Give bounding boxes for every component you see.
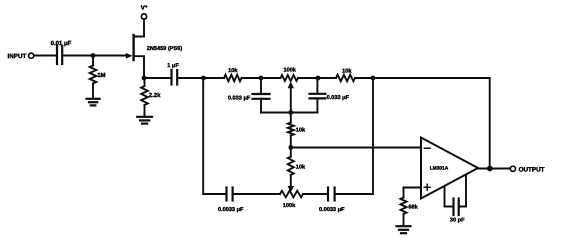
V+ terminal (141, 14, 146, 19)
wire op-amp non-inverting input (404, 188, 422, 198)
svg-text:INPUT: INPUT (7, 53, 26, 60)
ground GND3 (397, 225, 411, 227)
svg-text:2N5459 (PS6): 2N5459 (PS6) (147, 45, 183, 52)
svg-text:0.0033 μF: 0.0033 μF (319, 207, 345, 213)
wire feedback top (373, 78, 490, 169)
transistor Q1 gate bar (132, 35, 134, 60)
resistor R1 1M (92, 56, 94, 66)
wire right branch down (372, 78, 374, 194)
svg-text:LM301A: LM301A (430, 166, 449, 172)
resistor R5 10k (290, 113, 292, 123)
input terminal (29, 53, 34, 58)
wire node H to op-amp inverting input (291, 147, 421, 149)
capacitor C4 0.033uF (316, 78, 318, 94)
wire link line between C3 C4 bottoms (261, 112, 317, 114)
node E junction (316, 76, 321, 81)
svg-text:0.033 μF: 0.033 μF (228, 95, 251, 101)
resistor R7 68k (401, 198, 407, 215)
wire bottom rail mid-right (303, 193, 327, 195)
resistor R2 2.2k (144, 78, 146, 86)
comp pin 1 wire (445, 186, 453, 206)
svg-text:10k: 10k (296, 163, 306, 170)
ground GND2 (137, 116, 152, 118)
potentiometer P2 100k element (280, 191, 303, 198)
wire wiper to link line (290, 88, 292, 113)
wire bottom rail left (203, 193, 225, 195)
Q1 source lead (134, 56, 144, 78)
resistor R3 10k (204, 77, 225, 79)
P1 wiper arrow (288, 82, 294, 89)
gate arrow of Q1 (126, 53, 133, 59)
wire bottom rail mid-left (233, 193, 280, 195)
wire op-amp output (478, 168, 510, 170)
output terminal (510, 166, 515, 171)
node A junction (91, 53, 96, 58)
svg-text:OUTPUT: OUTPUT (519, 167, 545, 174)
wire C1 to node A (62, 55, 93, 57)
node B junction (source node) (142, 76, 147, 81)
node H junction (288, 145, 293, 150)
svg-text:V+: V+ (141, 5, 148, 12)
node G junction (288, 110, 293, 115)
capacitor C3 0.033uF (260, 78, 262, 94)
wire bottom rail right (335, 193, 373, 195)
resistor R4 10k (318, 77, 336, 79)
node F junction (371, 76, 376, 81)
wire node A to JFET gate (93, 55, 127, 57)
svg-text:1 μF: 1 μF (167, 63, 179, 69)
svg-text:30 pF: 30 pF (450, 217, 465, 223)
capacitor C2 1uF (170, 70, 172, 85)
wire C2 to node C (177, 77, 203, 79)
R6 wiper arrow down (288, 186, 294, 192)
resistor R6 10k (290, 148, 292, 157)
svg-text:10k: 10k (296, 127, 306, 134)
svg-text:0.033 μF: 0.033 μF (327, 95, 350, 101)
svg-text:0.01 μF: 0.01 μF (51, 40, 72, 47)
svg-text:10k: 10k (342, 67, 352, 74)
minus sign (424, 147, 430, 149)
potentiometer P1 100k element (281, 75, 299, 81)
comp pin 8 wire (460, 175, 466, 207)
capacitor C6 0.0033uF (327, 188, 329, 201)
plus sign (424, 186, 430, 188)
capacitor C1 0.01uF (56, 46, 58, 64)
svg-text:2.2k: 2.2k (149, 92, 161, 99)
node D junction (259, 76, 264, 81)
svg-text:1M: 1M (97, 72, 105, 79)
svg-text:0.0033 μF: 0.0033 μF (218, 207, 244, 213)
capacitor C5 0.0033uF (225, 188, 227, 201)
wire node B to C2 (144, 77, 171, 79)
op-amp U1 LM301A (421, 138, 478, 199)
node J output junction (487, 166, 493, 172)
capacitor C7 30pF (452, 199, 454, 216)
wire input terminal to C1 (34, 55, 56, 57)
svg-text:100k: 100k (283, 202, 296, 209)
svg-text:68k: 68k (408, 204, 418, 211)
wire left branch down (202, 78, 204, 194)
svg-text:10k: 10k (228, 67, 238, 74)
Q1 drain lead (134, 19, 144, 36)
svg-text:100k: 100k (283, 66, 296, 73)
node C junction (201, 76, 206, 81)
ground GND1 (87, 98, 100, 100)
